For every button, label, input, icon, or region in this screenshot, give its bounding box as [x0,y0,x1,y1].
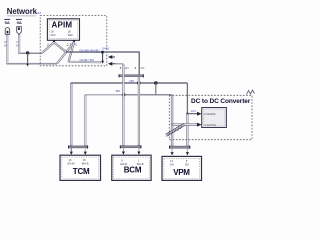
node J6 [171,123,173,125]
BCM pin 2 arrow [137,148,140,155]
svg-text:4 GN/OG: 4 GN/OG [204,112,216,116]
fuse F2 label [16,19,22,25]
node J4 BCM left on bottom bus [122,93,126,97]
node J5 [186,113,188,115]
wire upper-right (dark) to splice [66,51,102,53]
svg-text:APIM: APIM [52,21,73,30]
wire lower-right (gray) [69,61,102,63]
wire from T1 [7,35,57,64]
TCM pin 1 arrow [70,148,73,155]
svg-text:GN-WH: GN-WH [80,48,90,52]
svg-text:C24: C24 [35,11,41,15]
twisted pair diagonal B [57,42,74,63]
module BCM box [112,155,151,180]
twisted loom hatched band [166,123,185,136]
APIM pin 2 wedge [72,40,75,43]
wire splice to corner and down [104,52,139,75]
TCM pin label 16 [67,158,75,165]
splice S1 square [101,51,104,54]
wire label W2 [16,40,20,47]
module APIM box [47,19,79,41]
continuation squiggle [247,90,255,95]
svg-text:GN: GN [170,163,174,167]
svg-text:S410: S410 [102,47,109,51]
svg-text:TCM: TCM [73,167,90,176]
svg-text:GN-W: GN-W [67,161,75,165]
svg-text:GN-W: GN-W [120,162,128,166]
wire BCM left vertical [122,65,124,146]
wire from T2 [19,35,42,53]
svg-text:GY: GY [141,66,145,70]
connector arrow CA1 [108,55,115,59]
converter connector box U1 [202,108,227,128]
svg-text:VPM: VPM [173,168,190,177]
wire bottom bus [85,94,123,96]
wire branch to converter pin1 [187,113,197,115]
svg-text:BU: BU [185,163,189,167]
inline connector bar C4 (BCM) [120,145,142,148]
twisted pair diagonal D [69,42,75,62]
APIM pin label 18 [68,30,74,38]
svg-text:GN/: GN/ [51,33,56,37]
VPM pin label 13 [170,159,174,166]
TCM pin label 15 [82,158,89,165]
wire tie buses [155,83,157,95]
svg-text:DC to DC Converter: DC to DC Converter [191,98,251,105]
VPM pin 1 arrow [171,148,174,155]
node J2 on top bus [154,81,158,85]
VPM pin 2 arrow [186,148,189,155]
svg-text:WH-B: WH-B [137,162,144,166]
wire TCM left drop [70,83,72,146]
twisted pair diagonal A [42,42,54,53]
wire LIN drop from top bus [186,83,188,114]
converter pin 1 arrow [197,112,202,116]
wire branch to converter pin2 [171,123,198,125]
connector terminal T1 (dome) [5,28,10,35]
splice drop wire [102,53,104,60]
inline connector bar C3 (TCM) [68,145,88,148]
svg-text:GY: GY [125,66,129,70]
svg-text:MS: MS [116,89,121,93]
wire TCM right drop [84,95,86,146]
svg-text:GN-BU: GN-BU [80,58,89,62]
splice drop wedge [101,61,104,64]
svg-text:LIN: LIN [191,109,196,113]
BCM pin label 1 [137,159,144,166]
connector terminal T2 (shield) [17,27,22,35]
wire label W1 [4,40,8,47]
connector arrow CA2 [108,62,116,66]
module APIM dashed boundary [40,16,107,66]
wire VPM left vertical lower [171,125,173,147]
svg-text:WH-BU: WH-BU [90,48,99,52]
wire BCM right vertical [138,76,140,146]
svg-text:WH/: WH/ [68,33,74,37]
twisted pair diagonal C [54,42,66,52]
module DC-DC converter dashed boundary [169,95,252,139]
svg-text:WH-B: WH-B [82,161,89,165]
BCM pin label 9 [120,159,128,166]
svg-text:5A: 5A [17,20,22,25]
node J3 BCM right on top bus [137,81,141,85]
title Network [7,7,38,16]
TCM pin 2 arrow [84,148,87,155]
BCM pin 1 arrow [122,148,125,155]
converter pin 2 arrow [197,123,202,127]
svg-text:Network: Network [7,7,38,16]
VPM pin label 5 [185,159,189,166]
wire top bus [71,82,188,84]
fuse F1 label [4,19,10,25]
inline connector bar C5 (VPM) [169,146,190,149]
module VPM box [162,156,202,180]
wire VPM right vertical [186,114,188,146]
wire CA2 to BCM-left drop [116,63,124,65]
node J1 [26,51,29,54]
svg-text:BCM: BCM [124,166,142,175]
svg-text:3 GY/OG: 3 GY/OG [204,123,216,127]
module TCM box [60,155,101,180]
svg-text:5A: 5A [5,20,10,25]
APIM pin 1 wedge [53,40,56,43]
svg-text:BU: BU [90,58,94,62]
wire tie J1 down [27,53,29,64]
inline connector bar C2 [119,74,144,77]
APIM pin label 19 [51,30,56,38]
wire bottom bus drop to VPM left [171,95,173,125]
